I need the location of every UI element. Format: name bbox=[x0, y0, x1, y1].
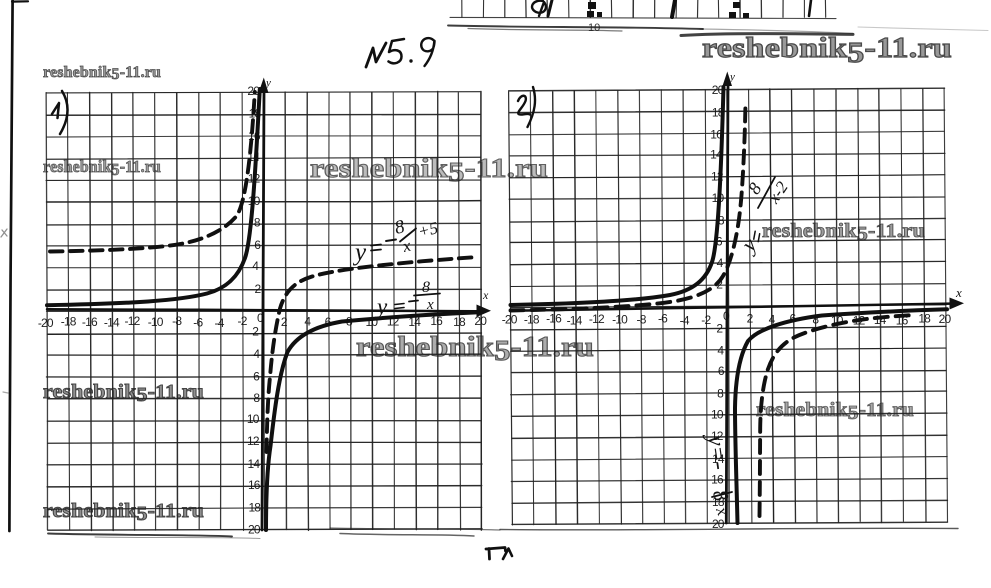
svg-text:10: 10 bbox=[247, 412, 260, 426]
svg-text:4: 4 bbox=[717, 344, 724, 358]
svg-text:-4: -4 bbox=[215, 316, 225, 330]
right graph grid bbox=[508, 88, 947, 525]
right graph dashed curve y=-8/(x-2) left branch bbox=[511, 107, 746, 311]
left graph y-axis bbox=[262, 93, 264, 530]
svg-text:-2: -2 bbox=[701, 313, 711, 327]
svg-text:16: 16 bbox=[711, 473, 724, 487]
svg-text:-8: -8 bbox=[637, 312, 647, 326]
svg-text:-20: -20 bbox=[38, 316, 54, 330]
svg-text:18: 18 bbox=[248, 501, 261, 515]
top figure dot marks bbox=[729, 2, 749, 18]
watermark lower-left bbox=[43, 382, 204, 403]
right graph solid curve y=-8/x right branch bbox=[735, 309, 947, 523]
svg-text:16: 16 bbox=[248, 478, 261, 492]
svg-text:20: 20 bbox=[248, 523, 261, 537]
svg-text:-10: -10 bbox=[612, 312, 628, 326]
top figure ink mark: loop glyph bbox=[532, 1, 546, 16]
svg-text:8: 8 bbox=[422, 279, 430, 296]
svg-text:8: 8 bbox=[744, 179, 766, 198]
left graph grid bbox=[46, 91, 482, 531]
svg-text:y: y bbox=[729, 71, 735, 83]
svg-text:+5: +5 bbox=[416, 218, 440, 241]
svg-text:18: 18 bbox=[453, 315, 466, 329]
svg-text:4: 4 bbox=[304, 315, 311, 329]
smudge under left grid bbox=[48, 534, 232, 537]
svg-text:x: x bbox=[482, 288, 489, 302]
top cut-off figure grid columns bbox=[450, 0, 836, 19]
left graph x tick labels bbox=[38, 314, 487, 330]
svg-text:у: у bbox=[375, 294, 388, 319]
svg-text:4: 4 bbox=[253, 347, 260, 361]
right graph y-axis bbox=[726, 86, 728, 523]
svg-text:х: х bbox=[400, 236, 413, 257]
top figure thick bar 2 bbox=[809, 0, 811, 16]
svg-text:-18: -18 bbox=[524, 313, 540, 327]
right graph label 2) bbox=[518, 96, 530, 115]
svg-text:8: 8 bbox=[717, 387, 724, 401]
watermark center-upper bbox=[310, 155, 548, 182]
svg-text:-2: -2 bbox=[238, 314, 248, 328]
right graph solid curve y=-8/x left branch bbox=[511, 87, 724, 305]
svg-text:-18: -18 bbox=[61, 314, 77, 328]
svg-text:-16: -16 bbox=[546, 312, 562, 326]
svg-text:-14: -14 bbox=[104, 316, 120, 330]
svg-text:10: 10 bbox=[711, 408, 724, 422]
right graph x tick labels bbox=[502, 311, 952, 327]
watermark bottom-left bbox=[43, 501, 204, 522]
svg-text:-12: -12 bbox=[125, 314, 141, 328]
left graph solid curve y=-8/x right branch bbox=[266, 312, 479, 530]
left graph solid curve y=-8/x left branch bbox=[47, 89, 260, 305]
svg-text:2: 2 bbox=[252, 324, 259, 338]
right graph x-axis bbox=[511, 304, 951, 311]
left handwritten label y=-8/x bbox=[375, 279, 440, 319]
svg-text:х-2: х-2 bbox=[763, 178, 792, 208]
left graph dashed curve y=-8/x+5 right branch bbox=[267, 257, 479, 452]
right rotated handwritten label -8/(x-2) bbox=[735, 177, 792, 258]
svg-text:-14: -14 bbox=[567, 313, 583, 327]
right graph dashed curve y=-8/(x-2) right branch bbox=[760, 315, 913, 516]
watermark top-right bbox=[702, 34, 952, 63]
top figure ink mark: thick stroke bbox=[548, 0, 552, 16]
left graph x-axis bbox=[47, 309, 477, 311]
watermark mid-right bbox=[762, 221, 925, 241]
svg-text:2: 2 bbox=[747, 312, 754, 326]
page left border line bbox=[9, 0, 12, 531]
watermark lower-right bbox=[756, 401, 914, 421]
left graph dashed curve y=-8/x+5 left branch bbox=[50, 92, 255, 252]
right bottom rotated handwritten label y=-8/x bbox=[702, 431, 733, 471]
svg-text:18: 18 bbox=[918, 312, 931, 326]
svg-text:8: 8 bbox=[254, 216, 261, 230]
handwritten problem number N5.9 bbox=[366, 38, 435, 67]
svg-text:2: 2 bbox=[281, 315, 288, 329]
svg-text:-8: -8 bbox=[172, 314, 182, 328]
svg-text:х: х bbox=[426, 297, 434, 313]
left handwritten label y=-8/x+5 bbox=[352, 216, 440, 266]
smudge strokes under top figure bbox=[448, 26, 703, 30]
svg-text:4: 4 bbox=[252, 259, 259, 273]
watermark mid-left bbox=[43, 159, 161, 176]
svg-text:14: 14 bbox=[248, 457, 261, 471]
right graph y tick labels bbox=[710, 83, 725, 531]
svg-text:y: y bbox=[265, 77, 271, 89]
smudge line above top-right watermark bbox=[681, 33, 853, 35]
svg-text:x: x bbox=[955, 285, 962, 300]
svg-text:-6: -6 bbox=[193, 316, 203, 330]
svg-text:-6: -6 bbox=[658, 312, 668, 326]
page top-left corner stub bbox=[12, 0, 28, 3]
watermark center-lower bbox=[356, 334, 594, 362]
svg-text:-20: -20 bbox=[502, 313, 518, 327]
svg-text:-4: -4 bbox=[680, 313, 690, 327]
bottom center mark bbox=[486, 548, 506, 560]
left graph label 1) bbox=[52, 103, 59, 118]
svg-text:-10: -10 bbox=[148, 315, 164, 329]
svg-text:-12: -12 bbox=[589, 312, 605, 326]
watermark top-left bbox=[43, 65, 161, 81]
top figure thick bar bbox=[672, 0, 675, 17]
left graph y tick labels bbox=[247, 84, 262, 537]
stray mark left margin bbox=[1, 229, 7, 237]
smudge under right grid bbox=[500, 528, 958, 530]
svg-text:-16: -16 bbox=[82, 315, 98, 329]
svg-text:20: 20 bbox=[474, 314, 487, 328]
svg-text:20: 20 bbox=[939, 312, 952, 326]
svg-text:у: у bbox=[352, 239, 367, 266]
svg-text:12: 12 bbox=[247, 434, 260, 448]
top figure dark square marks bbox=[587, 2, 602, 17]
svg-text:у: у bbox=[735, 232, 762, 257]
svg-text:у=-: у=- bbox=[702, 431, 733, 471]
